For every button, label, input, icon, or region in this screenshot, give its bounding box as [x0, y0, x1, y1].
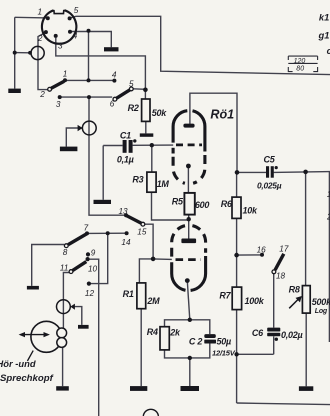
voltage table box 120/80 [288, 56, 317, 72]
junction dot row3-6 [87, 95, 91, 99]
ground hinge8 wire [27, 286, 39, 290]
junction dot row1-4 [87, 78, 91, 82]
wire socket J3 right lead to ground [75, 307, 82, 325]
contact dot 7 [85, 231, 89, 235]
contact dot 3 [58, 95, 62, 99]
wire bottom rail to C6 [237, 353, 274, 355]
wire grid node left to R1 [139, 259, 153, 283]
junction dot lower grid node [151, 257, 156, 262]
head label leader line [27, 351, 33, 361]
wire junction 3-6 row down through socket J2 then right to contact 13 [89, 97, 126, 215]
ground left rail [8, 89, 20, 93]
switch arm 8-7 [64, 234, 86, 248]
svg-text:15: 15 [137, 228, 147, 237]
svg-text:2: 2 [37, 34, 43, 43]
svg-text:Hör -und: Hör -und [0, 358, 36, 369]
DIN pin 3 [54, 34, 58, 38]
wire pin2 down through socket circle to switch hinge 2 [38, 32, 48, 89]
switch arm 2-1 [48, 81, 65, 91]
DIN pin 5 [68, 16, 72, 20]
wire contact 5 to R2 top node [133, 88, 145, 91]
wire pin3 down and right to R2 node [56, 38, 146, 99]
triode lower envelope [172, 226, 206, 291]
wire R1 bottom long lead to ground [140, 309, 142, 386]
wire R5 bottom to lower anode [188, 215, 190, 239]
capacitor C6 [267, 328, 280, 337]
ground R4C2 [181, 386, 200, 391]
wire C5 junction down to R8 top [305, 172, 307, 286]
triode lower grid dashes [176, 258, 202, 261]
ground R2 [140, 133, 154, 136]
wire top-left rail to pin1 [15, 16, 48, 19]
junction dot R4C2 bottom rail [188, 356, 192, 360]
wire socket J3 down to head coil [62, 314, 64, 329]
head double arrow [19, 332, 50, 337]
wire hinge8 left and down to ground [32, 245, 65, 286]
contact dot 10 [86, 257, 90, 261]
wire C5 left lead [237, 171, 266, 173]
contact dot 9 [86, 252, 90, 256]
wire upper cathode to R5 [187, 166, 189, 193]
wire contact row 3 to 6 [60, 96, 112, 98]
resistor R6 [232, 197, 241, 218]
switch arm 18-17 [272, 254, 284, 274]
ground R1 [130, 386, 147, 391]
wire junction pin4 branch down to contact row 1-4 [88, 32, 90, 81]
wire C5 right lead to junction and off right edge [274, 171, 330, 174]
svg-text:120: 120 [294, 58, 306, 65]
svg-text:5: 5 [74, 6, 79, 15]
socket J3 arrow tip [70, 304, 75, 310]
svg-text:7: 7 [84, 223, 89, 232]
resistor R2 [142, 99, 150, 121]
potentiometer R8 [302, 286, 310, 314]
head coil loop lower [57, 338, 67, 348]
svg-text:500k: 500k [312, 297, 330, 307]
ground R8 [299, 386, 313, 391]
switch arm 6-5 [113, 87, 133, 101]
svg-text:5: 5 [129, 79, 134, 88]
junction dot 7-14 [106, 231, 110, 235]
svg-text:Log: Log [315, 308, 328, 315]
socket J2 arrow tip [78, 125, 83, 131]
svg-text:50k: 50k [152, 108, 168, 118]
socket J3 circle [57, 300, 71, 314]
svg-text:C5: C5 [264, 154, 276, 164]
junction dot pin4 branch [87, 29, 91, 33]
wire stub down right page edge [328, 172, 330, 342]
wire R4 C2 top rail [165, 320, 210, 334]
partial circle at bottom edge [143, 409, 158, 416]
svg-text:C1: C1 [120, 131, 131, 141]
junction dot C5 node left [235, 170, 240, 175]
contact dot 14 [125, 231, 129, 235]
wire R6 vertical chain down to contact16 node [236, 172, 238, 197]
triode upper cathode dot [186, 164, 191, 169]
svg-text:R6: R6 [221, 199, 233, 209]
triode upper envelope [173, 111, 205, 184]
ground socket J3 wire [78, 325, 89, 329]
wire C1 right to grid of upper triode [133, 144, 174, 146]
wire pin5 to corner to long top rail [70, 16, 330, 74]
junction dot R3 grid node [150, 143, 154, 147]
svg-text:4: 4 [112, 71, 117, 80]
contact dot 13 [124, 213, 128, 217]
svg-text:16: 16 [257, 245, 267, 254]
triode lower anode plate [181, 239, 196, 244]
wire junction 7-14 down and left to contact 12 [89, 233, 108, 283]
contact dot 12 [87, 282, 91, 286]
wire bottom rail off right edge [237, 403, 330, 405]
wire R3 top lead [151, 145, 153, 172]
contact dot 16 [260, 253, 264, 257]
resistor R4 [160, 327, 169, 350]
wire R7 bottom down to bottom node [236, 310, 238, 403]
svg-text:R5: R5 [172, 196, 184, 206]
junction dot R5 bottom [187, 217, 191, 221]
wire arm15 to grid node of lower triode [145, 224, 153, 259]
resistor R5 [184, 193, 194, 215]
svg-text:10: 10 [88, 264, 98, 273]
wire contact16 branch [237, 254, 262, 256]
svg-text:3: 3 [56, 100, 61, 109]
resistor R7 [232, 287, 241, 310]
wire left vertical from rail to ground [14, 17, 16, 88]
ground C1 [94, 200, 112, 204]
ground socket J2 left [60, 147, 78, 152]
socket J1 circle [31, 46, 44, 59]
svg-text:k1: k1 [319, 11, 329, 22]
svg-text:50µ: 50µ [217, 337, 232, 347]
svg-text:100k: 100k [245, 296, 265, 306]
wire R4 C2 bottom rail and ground stem [165, 344, 210, 358]
ground head coil [56, 386, 69, 390]
svg-text:C 2: C 2 [189, 336, 203, 346]
svg-text:2M: 2M [146, 296, 160, 306]
wire R3 bottom lead to R5 bottom node [152, 192, 189, 220]
junction blob R2 top [143, 88, 148, 93]
triode lower cathode dot [185, 278, 190, 283]
socket J2 circle [82, 121, 96, 135]
capacitor C1 [123, 139, 137, 153]
svg-text:17: 17 [279, 244, 289, 253]
wire pin4 right to ground stem [70, 32, 111, 48]
svg-text:Rö1: Rö1 [210, 108, 234, 122]
DIN connector Bu1 outline [42, 10, 76, 44]
svg-text:R2: R2 [128, 103, 139, 113]
potentiometer R8 wiper arrow [289, 296, 302, 308]
svg-text:11: 11 [60, 263, 69, 272]
wire R2 bottom to ground [145, 121, 147, 133]
junction dot left rail [13, 51, 17, 55]
svg-text:c: c [327, 46, 330, 56]
wire contact row 7 junction 14 [87, 232, 127, 234]
wire C6 bottom lead [273, 336, 275, 354]
svg-text:1: 1 [38, 7, 43, 16]
svg-text:1M: 1M [157, 179, 170, 189]
svg-text:12: 12 [85, 289, 95, 298]
svg-text:R7: R7 [219, 291, 231, 301]
resistor R3 [147, 172, 156, 192]
svg-text:2k: 2k [169, 327, 181, 337]
svg-text:0,02µ: 0,02µ [281, 330, 303, 340]
wire switch 18 down to C6 top [273, 274, 275, 328]
svg-text:g1: g1 [318, 29, 330, 40]
head coil loop upper [57, 328, 67, 338]
wire ground stem below R4C2 rail [189, 358, 191, 386]
junction dot below C6 [275, 338, 278, 341]
svg-text:600: 600 [195, 200, 210, 210]
switch arm 11-10 [69, 262, 86, 274]
socket J1 arrow tip [28, 51, 32, 55]
DIN pin 2 [44, 30, 48, 34]
wire C1 left lead and ground stem [103, 145, 122, 147]
wire junction dot left rail to socket J1 [15, 52, 30, 54]
svg-text:R8: R8 [289, 285, 300, 295]
svg-text:R4: R4 [147, 327, 158, 337]
head circle [31, 321, 62, 352]
svg-text:3: 3 [58, 42, 63, 51]
contact dot 4 [112, 79, 116, 83]
junction dot cathode R4C2 top rail [188, 318, 192, 322]
wire socket J2 left branch to ground [66, 128, 82, 147]
resistor R1 [137, 283, 146, 309]
svg-text:0,025µ: 0,025µ [257, 181, 282, 191]
svg-text:C6: C6 [252, 328, 264, 338]
svg-text:1: 1 [63, 69, 68, 78]
small dot above C5 right plate [275, 166, 278, 169]
capacitor C5 [266, 166, 274, 178]
svg-text:2: 2 [326, 212, 330, 222]
svg-text:80: 80 [296, 66, 304, 73]
svg-text:6: 6 [110, 99, 115, 108]
DIN pin 1 [46, 16, 50, 20]
svg-text:0,1µ: 0,1µ [117, 154, 134, 164]
wire upper anode lead up and right and down to C5 node [190, 93, 237, 172]
triode upper grid dashes [176, 143, 202, 146]
contact dot 1 [63, 78, 67, 82]
svg-text:18: 18 [276, 272, 286, 281]
svg-text:4: 4 [73, 31, 78, 40]
svg-text:13: 13 [119, 207, 129, 216]
wire grid node right into lower triode [153, 258, 172, 261]
wire head coil down to ground [62, 347, 64, 386]
wire R8 bottom to ground [305, 313, 307, 386]
ground pin4 top [104, 47, 119, 51]
svg-text:9: 9 [91, 248, 96, 257]
junction dot bottom rail left [234, 352, 238, 356]
svg-text:R1: R1 [123, 289, 134, 299]
capacitor C2 [204, 334, 216, 343]
wire lower cathode down to R4/C2 rail [187, 281, 190, 320]
junction dot contact16 rail [234, 253, 239, 258]
junction dot C5 node right [303, 170, 308, 175]
DIN pin 4 [68, 30, 72, 34]
svg-text:R3: R3 [132, 174, 143, 184]
switch arm 13-15 [127, 216, 145, 227]
wire hinge11 stub and drop through socket J3 [63, 273, 69, 314]
svg-text:12/15V: 12/15V [212, 348, 236, 357]
wire contact row 1 to 4 [65, 79, 114, 81]
svg-text:8: 8 [63, 248, 68, 257]
triode upper anode plate [183, 124, 194, 128]
svg-text:2: 2 [39, 90, 45, 99]
wire contacts 9-10 stub right and long drop off page [88, 259, 99, 416]
svg-text:10k: 10k [243, 205, 259, 215]
svg-text:14: 14 [121, 238, 131, 247]
svg-text:Sprechkopf: Sprechkopf [0, 373, 54, 384]
